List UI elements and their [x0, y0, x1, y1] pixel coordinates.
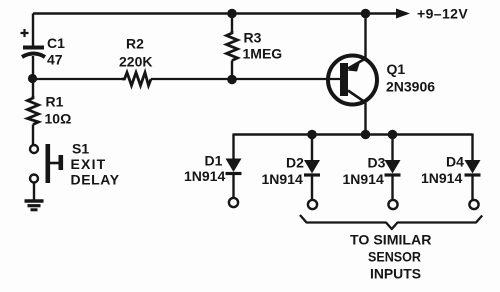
svg-text:220K: 220K [119, 54, 152, 70]
wire collector vertical [364, 103, 366, 135]
svg-text:TO SIMILAR: TO SIMILAR [350, 232, 432, 248]
node dot R3 bottom [227, 75, 237, 85]
svg-text:D2: D2 [286, 155, 304, 171]
diode D4 [465, 134, 481, 210]
svg-text:1N914: 1N914 [421, 170, 462, 186]
svg-text:S1: S1 [72, 141, 89, 157]
svg-text:EXIT: EXIT [71, 156, 107, 172]
resistor R1 [28, 79, 39, 145]
power rail arrowhead [396, 9, 410, 19]
svg-text:DELAY: DELAY [71, 172, 120, 188]
svg-text:D1: D1 [205, 153, 223, 169]
top power rail wire [33, 12, 396, 14]
wire S1 to ground [33, 183, 35, 202]
bottom bus wire [234, 133, 473, 135]
resistor R3 [227, 14, 238, 80]
svg-text:R2: R2 [126, 36, 144, 52]
svg-text:R1: R1 [46, 94, 64, 110]
transistor Q1 [328, 56, 377, 105]
diode D3 [385, 135, 401, 210]
node dot R3 top [227, 9, 237, 19]
svg-text:C1: C1 [47, 35, 65, 51]
node dot collector [361, 130, 371, 140]
svg-text:47: 47 [47, 52, 63, 68]
svg-text:1N914: 1N914 [262, 171, 303, 187]
diode D2 [304, 135, 320, 210]
svg-text:+9–12V: +9–12V [417, 6, 468, 22]
svg-text:D3: D3 [368, 155, 386, 171]
middle wire right [151, 78, 340, 80]
svg-text:1N914: 1N914 [184, 168, 225, 184]
svg-text:Q1: Q1 [387, 61, 406, 77]
wire emitter vertical [364, 14, 366, 59]
svg-text:1MEG: 1MEG [243, 46, 283, 62]
brace under sensor outputs [300, 215, 482, 229]
node dot D3 [388, 130, 398, 140]
svg-text:SENSOR: SENSOR [368, 249, 421, 265]
wire C1 top [32, 14, 34, 47]
svg-text:2N3906: 2N3906 [386, 79, 435, 95]
ground [25, 201, 44, 210]
diode D1 [226, 134, 242, 208]
node dot top rail / Q1 emitter [361, 9, 371, 19]
svg-text:INPUTS: INPUTS [370, 266, 421, 282]
svg-text:10Ω: 10Ω [45, 111, 72, 127]
switch S1 pushbutton [30, 144, 63, 183]
middle wire left [33, 78, 122, 80]
wire C1 bottom [32, 56, 34, 79]
node dot D2 [307, 130, 317, 140]
svg-text:R3: R3 [244, 30, 262, 46]
capacitor C1 [21, 29, 46, 57]
node junction C1/R1/R2 [28, 74, 37, 83]
resistor R2 [122, 73, 151, 86]
svg-text:1N914: 1N914 [343, 171, 384, 187]
svg-text:D4: D4 [446, 154, 464, 170]
